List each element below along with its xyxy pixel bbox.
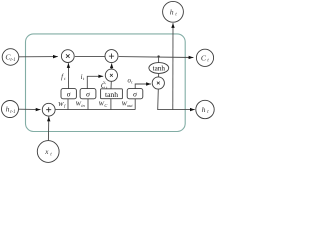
wire output-x down and right to ht bbox=[158, 89, 195, 109]
svg-text:h: h bbox=[202, 105, 206, 114]
svg-text:h: h bbox=[170, 8, 174, 17]
label Wf bbox=[58, 101, 66, 108]
svg-text:h: h bbox=[6, 105, 10, 114]
wire branch up to ht (top) bbox=[172, 23, 174, 110]
wire h(t-1) to input adder bbox=[19, 108, 41, 110]
wire sigma2 up and right into input-x (it) bbox=[87, 76, 103, 88]
adder gate + (cell state) bbox=[105, 50, 118, 63]
sigma box 4 (output gate) bbox=[127, 89, 143, 99]
node xt bbox=[37, 141, 59, 163]
label Wout bbox=[121, 101, 133, 108]
node h(t-1) bbox=[2, 101, 19, 118]
svg-text:tanh: tanh bbox=[105, 90, 118, 99]
svg-text:σ: σ bbox=[67, 89, 71, 98]
svg-text:in: in bbox=[81, 103, 85, 108]
multiplier gate x (output) bbox=[152, 77, 164, 89]
sigma box 2 (input gate) bbox=[80, 89, 96, 99]
svg-text:f: f bbox=[64, 103, 66, 108]
svg-text:σ: σ bbox=[86, 89, 90, 98]
junction on C line bbox=[157, 55, 159, 57]
label WC bbox=[99, 101, 108, 108]
adder gate + (inputs) bbox=[42, 103, 55, 116]
multiplier gate x (input) bbox=[105, 69, 117, 81]
svg-text:out: out bbox=[127, 103, 133, 108]
wire xt up to input adder bbox=[47, 117, 49, 141]
wire sigma4 up and right into output-x (ot) bbox=[135, 84, 151, 89]
wire drop to tanh box bbox=[110, 99, 112, 110]
label ot bbox=[127, 77, 133, 84]
sigma box 1 (forget gate) bbox=[61, 89, 76, 99]
node ht (right) bbox=[196, 100, 214, 118]
wire drop to sigma1 bbox=[67, 99, 69, 110]
label C~t bbox=[101, 83, 108, 90]
svg-text:t-1: t-1 bbox=[10, 110, 15, 115]
svg-text:t: t bbox=[64, 76, 66, 81]
wire tanh box up to input-x (C~t) bbox=[110, 81, 112, 88]
svg-text:C: C bbox=[201, 54, 207, 63]
svg-text:t: t bbox=[131, 79, 133, 84]
svg-text:σ: σ bbox=[133, 89, 137, 98]
LSTM cell boundary bbox=[26, 34, 186, 132]
wire C(t-1) to forget gate multiplier bbox=[19, 56, 58, 58]
label ft bbox=[61, 74, 66, 81]
label Win bbox=[76, 101, 86, 108]
wire adder to Ct bbox=[119, 56, 194, 59]
wire bus from adder under gate boxes bbox=[55, 109, 135, 111]
wire forget-x to adder bbox=[75, 56, 105, 58]
node ht (top) bbox=[163, 1, 184, 22]
svg-text:C: C bbox=[104, 103, 107, 108]
node Ct bbox=[196, 49, 213, 66]
tanh box (candidate) bbox=[101, 89, 123, 99]
wire drop to sigma2 bbox=[87, 99, 89, 110]
tanh ellipse (output squash) bbox=[149, 63, 169, 74]
svg-text:t: t bbox=[83, 76, 85, 81]
wire C line branch down to tanh bbox=[158, 57, 160, 63]
svg-text:tanh: tanh bbox=[153, 65, 166, 73]
svg-text:t-1: t-1 bbox=[10, 58, 15, 63]
wire sigma1 up to forget-x (ft) bbox=[67, 63, 69, 89]
multiplier gate x (forget) bbox=[61, 50, 74, 63]
wire tanh to output multiplier bbox=[158, 74, 160, 78]
node Ct-1 bbox=[2, 49, 19, 66]
wire input-x up to adder bbox=[111, 63, 113, 69]
wire drop to sigma4 bbox=[134, 99, 136, 110]
label it bbox=[81, 74, 85, 81]
